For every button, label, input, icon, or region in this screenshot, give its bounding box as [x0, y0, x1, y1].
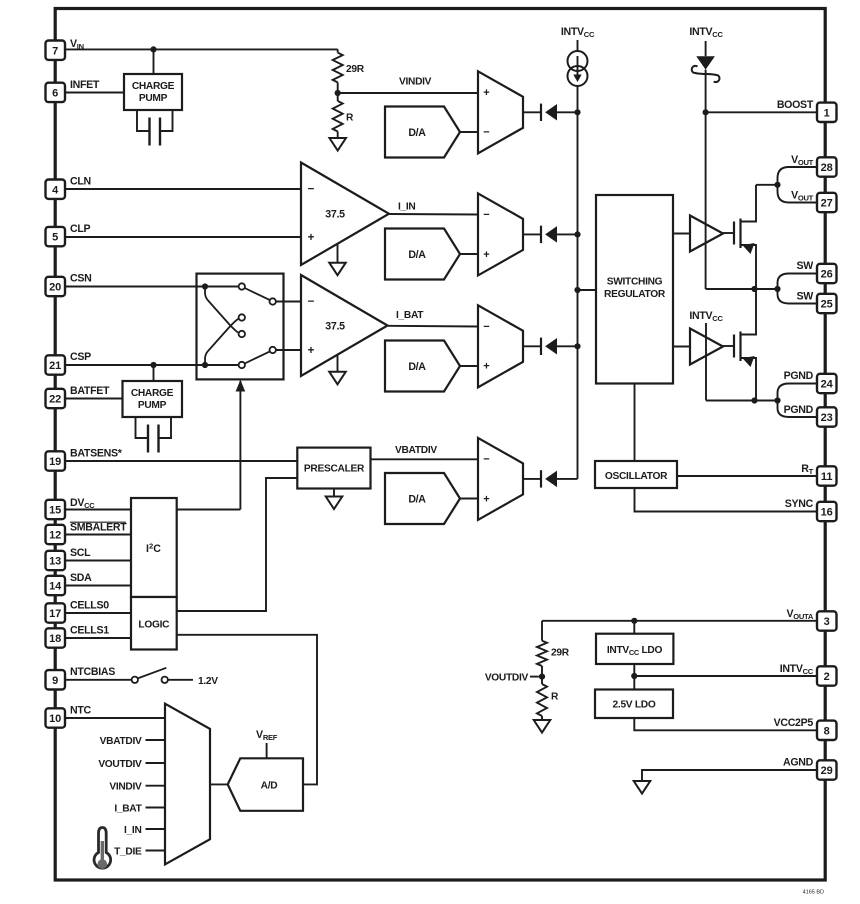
- svg-text:13: 13: [49, 556, 61, 568]
- svg-text:−: −: [483, 209, 489, 221]
- error amp E4 VBATDIV: [478, 438, 523, 520]
- wire crossover CSN to lower contact: [205, 287, 239, 333]
- svg-text:1: 1: [824, 107, 830, 119]
- svg-text:PGND: PGND: [784, 404, 814, 416]
- D/A converter DAC2: [385, 229, 460, 280]
- svg-text:I_BAT: I_BAT: [396, 310, 424, 321]
- error amp E2 I_IN: [478, 193, 523, 275]
- resistor 29R output divider: [541, 621, 543, 641]
- svg-text:NTCBIAS: NTCBIAS: [70, 666, 115, 678]
- 2.5V LDO block: [595, 690, 673, 719]
- svg-text:−: −: [483, 321, 489, 333]
- error amp E3 I_BAT: [478, 305, 523, 387]
- svg-text:27: 27: [821, 198, 833, 210]
- thermometer icon T_DIE: [94, 828, 111, 869]
- svg-text:16: 16: [821, 507, 833, 519]
- svg-text:PRESCALER: PRESCALER: [304, 464, 365, 475]
- pin 9 NTCBIAS: [46, 670, 66, 689]
- svg-text:26: 26: [821, 269, 833, 281]
- wire CLP to 37.5 amp U1 +: [65, 236, 301, 238]
- svg-text:22: 22: [49, 394, 61, 406]
- node VINDIV: [337, 82, 339, 101]
- D/A converter DAC4: [385, 473, 460, 524]
- pin 1 BOOST: [817, 103, 837, 122]
- svg-text:VBATDIV: VBATDIV: [100, 736, 142, 747]
- pin 11 R_T: [817, 466, 837, 485]
- oscillator block: [595, 461, 677, 488]
- D/A converter DAC1: [385, 107, 460, 158]
- wire CELLS1 to LOGIC: [65, 637, 131, 639]
- pin 24 PGND: [817, 374, 837, 393]
- svg-text:D/A: D/A: [408, 361, 426, 373]
- wire VREF to A/D: [266, 743, 268, 758]
- svg-text:CELLS0: CELLS0: [70, 600, 109, 612]
- ground U3: [337, 355, 339, 372]
- svg-text:CSP: CSP: [70, 351, 91, 363]
- svg-text:15: 15: [49, 505, 61, 517]
- svg-text:−: −: [308, 184, 315, 196]
- svg-text:SCL: SCL: [70, 547, 91, 559]
- svg-text:5: 5: [52, 232, 58, 244]
- svg-text:SW: SW: [797, 260, 814, 272]
- svg-text:SMBALERT: SMBALERT: [70, 521, 127, 533]
- svg-text:CLN: CLN: [70, 176, 91, 188]
- wire CSP to charge pump 2: [153, 365, 155, 381]
- wire NTC to mux: [65, 717, 165, 719]
- pin 23 PGND: [817, 407, 837, 426]
- pin 13 SCL: [46, 551, 66, 570]
- svg-text:+: +: [308, 345, 315, 357]
- wire rail to switching regulator: [578, 289, 597, 291]
- ground U1: [337, 244, 339, 263]
- pin 4 CLN: [46, 180, 66, 199]
- svg-text:SDA: SDA: [70, 572, 92, 584]
- svg-text:−: −: [308, 296, 315, 308]
- wire NTCBIAS to switch: [65, 679, 132, 681]
- svg-text:AGND: AGND: [783, 756, 814, 768]
- pin 17 CELLS0: [46, 603, 66, 622]
- pin 2 INTV_CC: [817, 666, 837, 685]
- wire VIN to charge pump: [153, 49, 155, 74]
- svg-text:REGULATOR: REGULATOR: [604, 289, 666, 300]
- pin 10 NTC: [46, 708, 66, 727]
- wire VOUTDIV label dash: [530, 676, 539, 678]
- pin 29 AGND: [817, 760, 837, 779]
- pin 15 DV_CC: [46, 500, 66, 519]
- pin 26 SW: [817, 264, 837, 283]
- svg-text:LOGIC: LOGIC: [138, 620, 170, 631]
- svg-text:+: +: [483, 361, 489, 373]
- wire VCC2P5 from 2.5V LDO: [634, 718, 817, 730]
- svg-text:28: 28: [821, 162, 833, 174]
- I2C block: [131, 498, 177, 597]
- pin 8 VCC2P5: [817, 721, 837, 740]
- svg-text:10: 10: [49, 713, 61, 725]
- wire INTVCC pin: [634, 675, 817, 677]
- pin 12 SMBALERT: [46, 525, 66, 544]
- svg-text:17: 17: [49, 608, 61, 620]
- wire driver to Q1 gate: [723, 232, 734, 234]
- switch matrix box: [197, 274, 284, 380]
- pin 14 SDA: [46, 576, 66, 595]
- svg-text:29R: 29R: [346, 64, 365, 75]
- diode D1: [523, 111, 578, 113]
- diode D4: [523, 478, 578, 480]
- switch crossover contacts: [239, 314, 245, 320]
- svg-text:1.2V: 1.2V: [198, 676, 218, 687]
- svg-text:PGND: PGND: [784, 370, 814, 382]
- capacitor flying cap C1: [137, 110, 173, 131]
- ground output divider: [541, 716, 543, 720]
- svg-text:14: 14: [49, 581, 62, 593]
- wire CSN to switch matrix: [65, 286, 197, 288]
- svg-text:9: 9: [52, 675, 58, 687]
- mux input T_DIE: [146, 850, 166, 852]
- pin 7 V_IN: [46, 41, 66, 60]
- svg-text:2.5V LDO: 2.5V LDO: [613, 700, 656, 711]
- svg-text:+: +: [483, 493, 489, 505]
- diode D2: [523, 233, 578, 235]
- wire CELLS0 to LOGIC: [65, 612, 131, 614]
- wire switch to U3 +: [276, 349, 301, 351]
- op-amp U3 37.5 current sense I_BAT: [301, 275, 388, 376]
- svg-text:D/A: D/A: [408, 249, 426, 261]
- svg-text:CELLS1: CELLS1: [70, 625, 109, 637]
- svg-text:24: 24: [821, 379, 834, 391]
- pin 5 CLP: [46, 227, 66, 246]
- ground input divider: [337, 132, 339, 139]
- svg-text:I_IN: I_IN: [124, 825, 141, 836]
- charge pump U2 box: [124, 74, 182, 110]
- svg-text:19: 19: [49, 456, 61, 468]
- wire crossover CSP to upper contact: [205, 319, 239, 365]
- wire VOUTA to INTVCC LDO: [633, 621, 635, 634]
- wire BOOST: [706, 111, 817, 113]
- diode D3: [523, 345, 578, 347]
- wire DVCC to I2C: [65, 509, 131, 511]
- svg-text:NTC: NTC: [70, 705, 92, 717]
- svg-text:29R: 29R: [551, 648, 570, 659]
- pin 19 BATSENS*: [46, 451, 66, 470]
- switch S2 bottom contact: [239, 362, 245, 368]
- pin 3 V_OUTA: [817, 611, 837, 630]
- svg-text:VCC2P5: VCC2P5: [774, 717, 814, 729]
- svg-text:VINDIV: VINDIV: [109, 782, 142, 793]
- svg-text:CHARGE: CHARGE: [132, 81, 175, 92]
- pin 22 BATFET: [46, 389, 66, 408]
- svg-text:8: 8: [824, 725, 830, 737]
- ground AGND: [641, 780, 643, 782]
- svg-text:CSN: CSN: [70, 273, 91, 285]
- wire SDA to I2C: [65, 585, 131, 587]
- svg-text:A/D: A/D: [261, 781, 278, 792]
- svg-text:PUMP: PUMP: [138, 400, 167, 411]
- svg-text:BATFET: BATFET: [70, 385, 110, 397]
- pin 6 INFET: [46, 83, 66, 102]
- svg-text:I_IN: I_IN: [398, 202, 415, 213]
- svg-text:BATSENS*: BATSENS*: [70, 447, 123, 459]
- mux input I_IN: [146, 828, 166, 830]
- mux input VINDIV: [146, 785, 166, 787]
- capacitor flying cap C2: [136, 417, 172, 438]
- svg-text:I2C: I2C: [146, 542, 161, 556]
- wire LOGIC to A/D data: [177, 635, 317, 785]
- svg-text:R: R: [346, 113, 354, 124]
- wire CSP to switch matrix: [65, 364, 197, 366]
- analog mux: [165, 704, 210, 865]
- wire RT from oscillator: [677, 475, 817, 477]
- wire BATSENS to prescaler: [65, 460, 297, 462]
- svg-text:25: 25: [821, 299, 833, 311]
- pin 28 V_OUT: [817, 157, 837, 176]
- wire INTVCC rail: [577, 86, 579, 479]
- svg-text:23: 23: [821, 412, 833, 424]
- svg-text:OSCILLATOR: OSCILLATOR: [605, 471, 668, 482]
- svg-text:PUMP: PUMP: [139, 93, 168, 104]
- svg-text:VINDIV: VINDIV: [399, 77, 432, 88]
- wire CLN to 37.5 amp U1 -: [65, 188, 301, 190]
- svg-text:SW: SW: [797, 291, 814, 303]
- pin 20 CSN: [46, 277, 66, 296]
- wire INFET to charge pump: [65, 92, 124, 94]
- svg-text:4165 BD: 4165 BD: [803, 890, 824, 896]
- D/A converter DAC3: [385, 341, 460, 392]
- svg-text:21: 21: [49, 360, 61, 372]
- wire V_IN to divider: [65, 48, 338, 50]
- wire VBATDIV to error amp -: [371, 458, 479, 460]
- pin 18 CELLS1: [46, 628, 66, 647]
- LOGIC block: [131, 597, 177, 650]
- svg-text:D/A: D/A: [408, 494, 426, 506]
- svg-text:12: 12: [49, 530, 61, 542]
- svg-text:CHARGE: CHARGE: [131, 388, 174, 399]
- svg-text:3: 3: [824, 616, 830, 628]
- A/D converter: [228, 758, 303, 811]
- svg-text:SWITCHING: SWITCHING: [607, 277, 663, 288]
- svg-text:I_BAT: I_BAT: [114, 803, 142, 814]
- pin 25 SW: [817, 294, 837, 313]
- pin 16 SYNC: [817, 502, 837, 521]
- wire BATFET to charge pump 2: [65, 398, 123, 400]
- wire CSP inside switch: [197, 364, 239, 366]
- wire driver to Q2 gate: [723, 345, 734, 347]
- svg-text:VBATDIV: VBATDIV: [395, 445, 437, 456]
- svg-text:+: +: [483, 249, 489, 261]
- wire mux output: [210, 783, 228, 785]
- wire BOOST rail: [705, 70, 707, 289]
- pin 21 CSP: [46, 355, 66, 374]
- svg-text:CLP: CLP: [70, 223, 91, 235]
- wire I2C to switch control: [177, 509, 241, 511]
- resistor R input divider: [333, 101, 343, 132]
- transistor Q2 bottom NMOS: [733, 335, 735, 358]
- pin 27 V_OUT: [817, 193, 837, 212]
- INTVCC LDO block: [596, 634, 673, 664]
- wire I_IN to error amp: [389, 213, 478, 216]
- node VOUTDIV: [541, 666, 543, 684]
- transistor Q1 top NMOS: [733, 222, 735, 245]
- wire VOUTA: [542, 620, 817, 622]
- wire switching regulator to oscillator: [634, 384, 636, 462]
- mux input VOUTDIV: [146, 762, 166, 764]
- svg-text:+: +: [308, 232, 315, 244]
- wire LOGIC to prescaler: [177, 478, 298, 611]
- svg-text:BOOST: BOOST: [777, 99, 814, 111]
- charge pump U4 box: [123, 381, 183, 417]
- wire SMBALERT to I2C: [65, 534, 131, 536]
- switch S1 top contact: [239, 283, 245, 289]
- svg-text:R: R: [551, 692, 559, 703]
- svg-text:11: 11: [821, 471, 833, 483]
- svg-text:37.5: 37.5: [325, 320, 345, 332]
- error amp E1 VINDIV: [478, 71, 523, 153]
- wire VINDIV to error amp +: [338, 92, 478, 94]
- mux input I_BAT: [146, 807, 166, 809]
- svg-text:18: 18: [49, 633, 61, 645]
- svg-text:D/A: D/A: [408, 127, 426, 139]
- wire INTVCC LDO to 2.5V LDO: [633, 664, 635, 690]
- resistor 29R input divider: [337, 49, 339, 52]
- resistor R output divider: [537, 684, 547, 716]
- wire SCL to I2C: [65, 560, 131, 562]
- svg-text:+: +: [483, 87, 489, 99]
- svg-text:20: 20: [49, 282, 61, 294]
- wire Q1 drain to VOUT node: [755, 185, 757, 186]
- wire switch to U3 -: [276, 301, 301, 303]
- wire SYNC from oscillator: [635, 488, 818, 512]
- svg-text:INFET: INFET: [70, 79, 100, 91]
- control arrow into switch matrix: [239, 381, 241, 510]
- svg-text:29: 29: [821, 765, 833, 777]
- ground prescaler: [333, 489, 335, 497]
- wire SW bracket: [778, 274, 818, 304]
- gate driver A1 top: [673, 233, 690, 235]
- wire PGND bracket: [778, 384, 818, 418]
- switching regulator block: [596, 195, 673, 384]
- wire VOUT bracket: [778, 167, 818, 203]
- mux input VBATDIV: [146, 739, 166, 741]
- svg-text:VOUTDIV: VOUTDIV: [485, 673, 529, 684]
- svg-text:37.5: 37.5: [325, 209, 345, 221]
- prescaler block: [297, 448, 370, 489]
- switch S3 NTCBIAS: [132, 677, 138, 683]
- svg-text:2: 2: [824, 671, 830, 683]
- svg-text:4: 4: [52, 184, 59, 196]
- wire I_BAT to error amp: [388, 325, 479, 328]
- svg-text:−: −: [483, 454, 489, 466]
- svg-text:SYNC: SYNC: [785, 498, 814, 510]
- svg-text:6: 6: [52, 88, 58, 100]
- svg-text:7: 7: [52, 45, 58, 57]
- svg-text:T_DIE: T_DIE: [114, 846, 142, 857]
- op-amp U1 37.5 current sense I_IN: [301, 163, 389, 266]
- svg-text:−: −: [483, 127, 489, 139]
- svg-text:VOUTDIV: VOUTDIV: [98, 759, 142, 770]
- wire AGND: [642, 770, 817, 781]
- wire CSN inside switch: [197, 286, 239, 288]
